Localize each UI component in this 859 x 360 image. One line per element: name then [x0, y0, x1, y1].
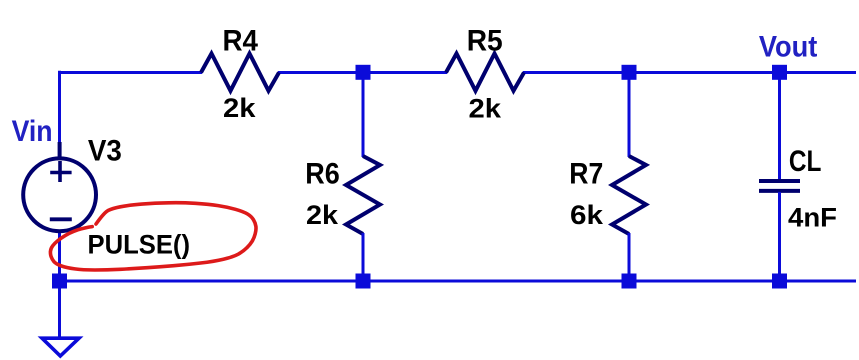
- capacitor CL: [759, 181, 800, 191]
- junction node bottom R7: [622, 274, 637, 289]
- svg-text:Vin: Vin: [12, 115, 53, 148]
- ground: [42, 338, 79, 356]
- svg-text:PULSE(): PULSE(): [88, 229, 191, 259]
- wire R7 vertical top: [628, 73, 631, 158]
- svg-text:R6: R6: [305, 158, 340, 191]
- svg-text:CL: CL: [789, 145, 822, 178]
- voltage source V3: [23, 142, 96, 231]
- svg-text:2k: 2k: [223, 93, 257, 123]
- svg-text:4nF: 4nF: [788, 202, 837, 232]
- svg-text:R5: R5: [467, 25, 503, 58]
- resistor R7: [612, 156, 646, 234]
- svg-text:2k: 2k: [306, 200, 339, 230]
- resistor R5: [446, 54, 524, 91]
- junction node top CL (Vout): [772, 65, 787, 80]
- svg-text:2k: 2k: [469, 93, 503, 123]
- wire CL vertical bottom: [778, 192, 781, 281]
- wire bottom rail: [58, 280, 856, 283]
- svg-text:R4: R4: [223, 25, 259, 58]
- wire V3 bottom to bottom rail: [58, 232, 61, 281]
- junction node bottom V3: [52, 274, 67, 289]
- wire CL vertical top: [778, 73, 781, 181]
- svg-text:Vout: Vout: [759, 30, 818, 63]
- junction node top R7: [622, 65, 637, 80]
- wire R6 vertical top: [362, 73, 365, 158]
- wire R7 vertical bottom: [628, 233, 631, 281]
- resistor R4: [201, 54, 279, 91]
- resistor R6: [346, 156, 380, 234]
- wire ground stub: [58, 281, 61, 338]
- wire top rail right: [523, 71, 856, 74]
- junction node bottom CL: [772, 274, 787, 289]
- junction node top R6: [356, 65, 371, 80]
- wire R6 vertical bottom: [362, 233, 365, 281]
- svg-text:6k: 6k: [570, 200, 604, 230]
- wire Vin vertical (top of V3): [58, 71, 61, 142]
- wire top rail left: [58, 71, 202, 74]
- wire top rail middle: [278, 71, 447, 74]
- svg-text:V3: V3: [88, 135, 122, 168]
- junction node bottom R6: [356, 274, 371, 289]
- red annotation circle around PULSE(): [50, 203, 256, 270]
- svg-text:R7: R7: [569, 158, 603, 191]
